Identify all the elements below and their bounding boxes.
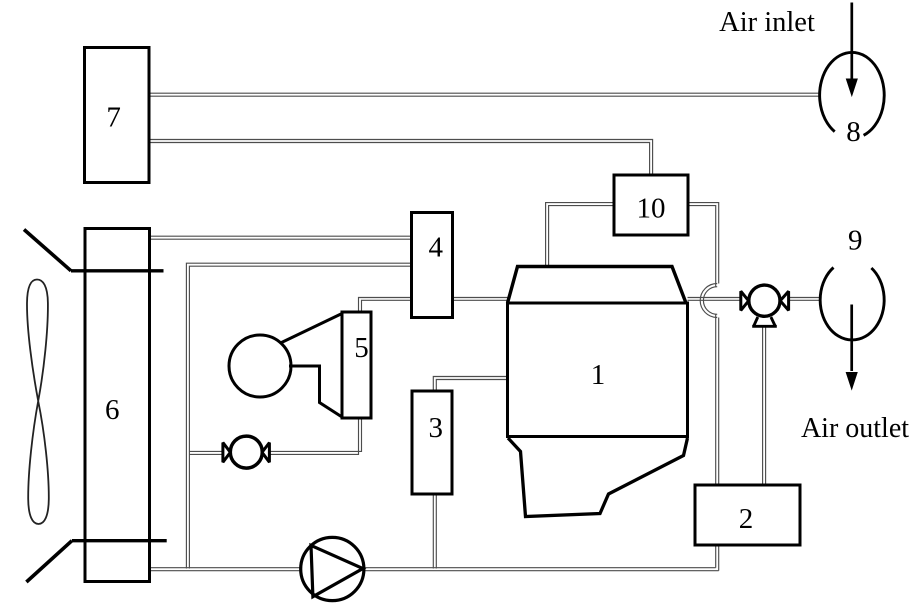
wire: bottom bus [150,568,719,571]
fan blades [27,280,49,525]
compressor 5: outlet rectangle [342,312,371,418]
tank 1 body [508,303,688,437]
box 10 [614,175,688,235]
svg-text:Air outlet: Air outlet [801,413,909,444]
label Air inlet [719,7,815,38]
label Air outlet [801,413,909,444]
blower 9 ellipse (gap at top) [820,225,884,340]
tank 1 hopper bottom [508,438,688,517]
pump on bottom bus [301,537,364,600]
wire: box7 lower output down to box10 top [149,140,653,177]
wire: box6 to box4 upper pipe [150,236,412,239]
wire jump arc over horizontal pipe [700,284,717,318]
wire: box3 top to tank1 [433,377,507,392]
wire: box10 right, down right side [688,203,719,287]
wire: valve9 to blower9 [789,298,820,301]
wire: below box2 to bottom bus corner [716,545,719,571]
wire: box7 to blower8 (double line) [149,93,820,96]
wire: valve9 down to box2 [763,326,766,485]
svg-text:1: 1 [591,359,606,391]
box 7 [85,48,150,183]
wire: vertical from arc down to box2 [716,314,719,485]
wire: vertical riser x187 with branch to box4 [186,263,411,568]
fan shroud top diagonal [24,230,164,271]
box 2 [695,485,800,545]
compressor 5: motor circle [229,335,291,397]
air inlet arrow [846,3,857,96]
control valve 9 [741,285,789,326]
svg-text:Air inlet: Air inlet [719,7,815,38]
box 3 [412,391,452,494]
svg-text:7: 7 [106,101,121,133]
tank 1 top trapezoid [508,267,687,304]
blower 8 ellipse (gap at bottom) [820,52,885,148]
wire: box10 left to tank1 top [546,203,614,267]
fan shroud bottom diagonal [26,541,166,582]
wire: valve pipe from riser to valve and valve to compressor5 leg [189,451,222,454]
wire: box3 bottom to bus [433,494,436,569]
svg-text:10: 10 [637,193,666,225]
svg-text:4: 4 [429,232,444,264]
wire: box4 through to tank1 at y300 and down to compressor5 [269,298,508,455]
box 4 [412,213,453,318]
wire: tank1 right to valve9 [688,298,741,301]
svg-text:5: 5 [354,332,369,364]
svg-text:8: 8 [846,116,861,148]
valve between riser and compressor leg [223,436,270,468]
box 6 [85,229,150,582]
svg-text:6: 6 [105,394,120,426]
svg-text:9: 9 [848,225,863,257]
compressor 5: shaft and horn [282,314,343,418]
air outlet arrow [846,305,857,390]
svg-text:3: 3 [428,412,443,444]
svg-text:2: 2 [739,503,754,535]
